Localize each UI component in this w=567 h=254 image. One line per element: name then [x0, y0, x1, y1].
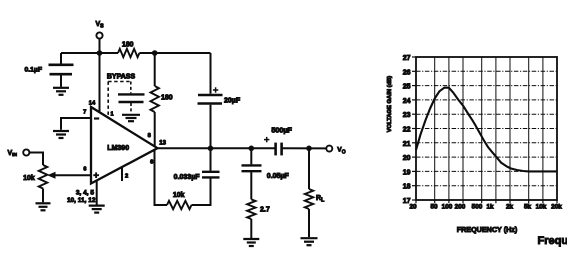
graph axis ticks: [412, 57, 557, 203]
wire wiper to plus input pin 6: [50, 174, 91, 176]
op-amp plus input marker: [93, 172, 99, 178]
ground (pot): [36, 202, 51, 204]
svg-text:24: 24: [403, 98, 411, 105]
svg-text:3, 4, 5: 3, 4, 5: [76, 190, 94, 197]
svg-text:7: 7: [83, 109, 86, 115]
svg-text:VOLTAGE GAIN (dB): VOLTAGE GAIN (dB): [387, 76, 393, 133]
svg-text:500: 500: [472, 204, 483, 211]
junction at VS rail: [97, 50, 103, 56]
wire top rail right segment: [139, 52, 210, 54]
svg-text:10k: 10k: [536, 204, 547, 211]
svg-text:26: 26: [403, 69, 411, 76]
wire VIN to pot: [29, 153, 43, 166]
node VO terminal: [326, 146, 332, 152]
svg-text:20: 20: [403, 155, 411, 162]
svg-text:20: 20: [409, 204, 417, 211]
svg-text:200: 200: [455, 204, 466, 211]
op-amp minus input marker: [94, 117, 99, 119]
graph y-axis tick labels 27-17: [403, 55, 411, 205]
svg-text:VS: VS: [96, 21, 105, 30]
potentiometer wiper arrow: [47, 172, 55, 179]
svg-text:FREQUENCY (Hz): FREQUENCY (Hz): [457, 225, 518, 234]
node VIN terminal: [23, 149, 29, 155]
wire 20uF to output node: [210, 105, 212, 149]
resistor R 180 (series, top rail): [118, 49, 139, 57]
capacitor 0.05uF stub: [250, 148, 252, 164]
wire 180 vertical to pin 8: [154, 112, 156, 147]
capacitor 0.033uF stub: [210, 148, 212, 171]
svg-text:LM390: LM390: [107, 145, 129, 152]
svg-text:22: 22: [403, 127, 411, 134]
svg-text:0.1µF: 0.1µF: [24, 66, 42, 73]
svg-text:1k: 1k: [486, 204, 494, 211]
svg-text:500µF: 500µF: [271, 125, 292, 134]
ground (bypass): [122, 114, 140, 116]
svg-text:10, 11, 12: 10, 11, 12: [67, 197, 96, 204]
svg-text:18: 18: [403, 184, 411, 191]
svg-text:13: 13: [159, 140, 166, 146]
curve voltage gain response: [416, 88, 557, 172]
capacitor 0.1uF stub: [60, 53, 62, 64]
capacitor 500uF plates: [276, 143, 282, 156]
ground (0.1uF): [53, 87, 69, 89]
dashed wire bypass to cap: [130, 82, 132, 94]
svg-text:VO: VO: [337, 146, 345, 155]
dashed wire bypass horizontal: [108, 81, 131, 83]
pin 2 stub: [121, 168, 123, 182]
graph frame: [416, 57, 557, 200]
ground (inverting input): [53, 130, 69, 132]
svg-text:RL: RL: [316, 195, 325, 204]
junction output / 0.05uF: [249, 146, 255, 152]
resistor 10k (feedback): [167, 201, 192, 209]
junction output / 0.033uF: [208, 146, 214, 152]
wire top rail left segment: [61, 52, 118, 54]
svg-text:0.033µF: 0.033µF: [174, 174, 201, 181]
ground (RL): [301, 237, 318, 239]
svg-text:27: 27: [403, 55, 411, 62]
svg-text:6: 6: [83, 166, 86, 172]
wire RL stub: [308, 148, 310, 189]
graph horizontal gridlines: [416, 71, 557, 185]
svg-text:VIN: VIN: [8, 150, 18, 158]
dashed wire bypass cap to ground: [130, 103, 132, 114]
svg-text:5k: 5k: [524, 204, 532, 211]
svg-text:2.7: 2.7: [260, 207, 270, 214]
ground (pins 3,4,5,10,11,12): [89, 205, 105, 207]
junction output / RL: [306, 146, 312, 152]
wire rail corner down to 20uF: [210, 53, 212, 94]
svg-text:0.05µF: 0.05µF: [267, 173, 290, 180]
svg-text:20µF: 20µF: [224, 98, 241, 105]
svg-text:BYPASS: BYPASS: [107, 74, 136, 81]
svg-text:23: 23: [403, 112, 411, 119]
potentiometer 10k body: [39, 165, 48, 189]
wire 0.1uF to ground: [60, 75, 62, 87]
polarity + (20uF): [213, 87, 218, 92]
junction top rail / 180 bootstrap: [152, 50, 158, 56]
wire rail to 180 vertical: [154, 53, 156, 86]
capacitor 0.1uF plates: [49, 65, 74, 74]
node VS supply terminal: [96, 32, 102, 38]
svg-text:2k: 2k: [506, 204, 514, 211]
svg-text:2: 2: [125, 174, 128, 180]
svg-text:8: 8: [148, 133, 152, 139]
wire 500uF to VO: [282, 147, 327, 149]
wire inverting input to ground: [61, 118, 91, 130]
dashed wire pin 1 bypass vertical: [107, 82, 109, 117]
wire VS terminal to top rail: [99, 39, 101, 53]
svg-text:19: 19: [403, 169, 411, 176]
resistor 180 (bootstrap, vertical): [151, 86, 159, 112]
graph vertical gridlines: [435, 57, 543, 200]
svg-text:1: 1: [111, 111, 114, 117]
wire pot to ground: [42, 189, 44, 203]
svg-text:Frequen: Frequen: [538, 235, 567, 247]
svg-text:25: 25: [403, 84, 411, 91]
op-amp U1 LM390 triangle: [91, 107, 158, 184]
resistor RL: [305, 189, 313, 209]
wire 2.7 to ground: [250, 219, 252, 238]
svg-text:21: 21: [403, 141, 411, 148]
svg-text:180: 180: [161, 95, 173, 102]
capacitor 0.033uF plates: [202, 172, 220, 178]
capacitor 0.05uF plates: [242, 165, 262, 171]
resistor 2.7 (zobel): [247, 199, 255, 219]
wire RL to ground: [308, 209, 310, 237]
capacitor 20uF plates: [198, 95, 223, 104]
capacitor bypass plates: [118, 94, 145, 102]
svg-text:180: 180: [122, 42, 134, 49]
wire output rail: [158, 147, 276, 149]
wire VS rail to pin 14: [99, 53, 101, 113]
svg-text:20k: 20k: [551, 204, 562, 211]
wire 0.033uF to 10k: [192, 178, 211, 205]
graph x-axis tick labels 20-20k: [409, 204, 562, 211]
wire 10k to pin 6: [155, 150, 168, 205]
svg-text:100: 100: [442, 204, 453, 211]
wire 0.05uF to 2.7: [250, 172, 252, 199]
svg-text:10k: 10k: [173, 192, 185, 199]
svg-text:50: 50: [430, 204, 438, 211]
ground (zobel): [243, 238, 259, 240]
svg-text:10k: 10k: [23, 175, 35, 182]
polarity + (500uF): [264, 137, 269, 142]
wire ground pins 3,4,5,10,11,12: [96, 181, 98, 205]
